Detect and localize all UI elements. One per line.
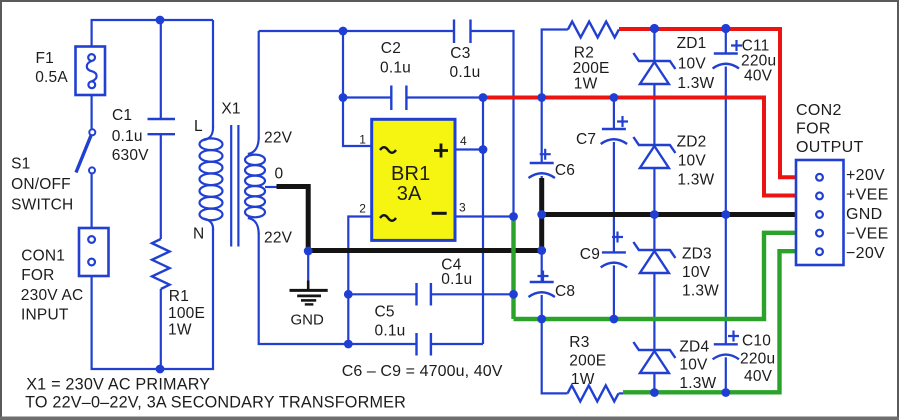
wire: green -raw rail to -VEE [514,233,797,319]
wire: top-left mains rail [92,20,213,47]
svg-text:X1: X1 [221,101,240,118]
svg-text:0.1u: 0.1u [112,128,143,145]
svg-text:630V: 630V [112,147,149,164]
wire: C4 right to -raw green column [431,293,514,295]
wire: pin 4 stub [455,148,483,150]
svg-text:1W: 1W [574,76,598,93]
svg-text:ZD3: ZD3 [682,246,712,263]
svg-text:1W: 1W [168,322,192,339]
svg-text:200E: 200E [573,60,610,77]
svg-text:C9: C9 [580,246,600,263]
svg-text:C6: C6 [555,162,575,179]
capacitor C6 [529,98,555,179]
svg-text:F1: F1 [36,50,55,67]
svg-text:ZD4: ZD4 [679,338,709,355]
svg-text:C3: C3 [450,45,470,62]
svg-text:R2: R2 [574,45,594,62]
wire: R1 to bottom rail [160,289,162,369]
wire: C1/R1 snubber column [160,20,162,119]
wire: C5 right to +raw column [431,343,483,345]
svg-text:0.1u: 0.1u [375,323,406,340]
connector CON2 [796,160,844,265]
zener diode ZD2 [633,137,675,215]
wire: AC1 drop to pin 1 [343,31,372,146]
svg-text:22V: 22V [264,230,293,247]
wire: green -20V bottom rail [623,251,796,392]
connector CON1 [79,228,109,276]
svg-text:0.1u: 0.1u [441,271,472,288]
svg-text:0.1u: 0.1u [450,64,481,81]
wire: C1 to R1 [160,134,162,239]
label BR1 pins [359,133,467,216]
svg-text:1.3W: 1.3W [682,282,719,299]
svg-text:FOR: FOR [796,121,831,138]
svg-text:C10: C10 [742,333,771,350]
svg-text:N: N [193,226,204,243]
svg-text:L: L [194,118,203,135]
svg-text:10V: 10V [679,357,708,374]
svg-text:10V: 10V [678,56,707,73]
wire: primary top drop [212,20,214,128]
svg-text:C8: C8 [555,283,575,300]
wire: C6 bottom stub [541,176,543,180]
svg-text:OUTPUT: OUTPUT [796,139,864,156]
wire: C2 right to +raw node [406,96,483,98]
svg-text:22V: 22V [264,130,293,147]
wire: red +raw rail [483,98,796,196]
capacitor C10 [713,215,739,393]
wire: secondary top 22V riser [258,31,260,139]
svg-text:10V: 10V [682,264,711,281]
fuse F1 [76,47,106,96]
svg-text:ZD1: ZD1 [677,35,707,52]
wire: green -raw column [511,217,515,320]
wire: GND rail to CON2 [539,178,544,251]
svg-text:100E: 100E [168,305,205,322]
capacitor C5 [417,333,431,356]
capacitor C3 [454,20,471,44]
wire: GND right rail [542,212,796,217]
svg-text:4: 4 [460,134,467,148]
svg-text:0.5A: 0.5A [35,69,68,86]
wire: F1 to S1 [90,95,92,130]
svg-text:220u: 220u [740,351,775,368]
wire: AC1 rail to C3 [259,30,454,32]
svg-text:INPUT: INPUT [21,307,69,324]
svg-text:FOR: FOR [21,267,54,284]
capacitor C2 [391,86,406,111]
ground symbol [290,251,328,304]
wire: +raw column through pin 4 down to C5 [482,98,484,345]
svg-text:R1: R1 [169,288,189,305]
wire: C5 rail [348,343,416,345]
svg-text:S1: S1 [11,156,30,173]
svg-text:C1: C1 [112,107,132,124]
svg-text:3: 3 [459,201,466,215]
resistor R1 [152,239,170,289]
switch S1 [76,129,95,173]
svg-text:1.3W: 1.3W [677,172,714,189]
zener diode ZD4 [633,342,675,393]
svg-text:3A: 3A [397,183,422,205]
svg-text:1.3W: 1.3W [679,375,716,392]
capacitor C8 [529,251,555,320]
transformer X1 secondary coil [245,138,278,235]
svg-text:1W: 1W [571,371,595,388]
svg-text:GND: GND [846,206,882,223]
svg-text:TO 22V–0–22V, 3A SECONDARY TR: TO 22V–0–22V, 3A SECONDARY TRANSFORMER [25,393,406,411]
svg-text:2: 2 [359,202,366,216]
svg-text:C7: C7 [576,131,596,148]
wire: secondary bottom 22V drop [259,233,349,344]
svg-text:+VEE: +VEE [846,187,889,204]
wire: C4 rail [348,293,416,295]
wire: C3 right to pin3 column [471,31,514,217]
svg-text:0: 0 [275,166,284,183]
svg-text:0.1u: 0.1u [380,59,411,76]
svg-text:CON1: CON1 [21,248,65,265]
wire: bottom mains rail [92,229,213,370]
transformer X1 primary coil [200,126,223,230]
svg-text:X1 = 230V AC PRIMARY: X1 = 230V AC PRIMARY [26,376,210,394]
svg-text:GND: GND [291,311,325,328]
resistor R2 [542,22,619,98]
svg-text:10V: 10V [678,153,707,170]
svg-text:230V AC: 230V AC [21,287,84,304]
capacitor C11 [713,29,742,215]
svg-text:C2: C2 [381,40,401,57]
capacitor C1 [148,119,176,134]
svg-text:SWITCH: SWITCH [11,197,73,214]
svg-text:C6 – C9 = 4700u, 40V: C6 – C9 = 4700u, 40V [342,363,503,380]
bridge rectifier BR1 [372,119,455,240]
svg-text:ZD2: ZD2 [677,134,707,151]
svg-text:CON2: CON2 [796,102,842,119]
svg-text:40V: 40V [744,368,773,385]
resistor R3 [542,319,623,401]
svg-text:BR1: BR1 [391,163,431,185]
zener diode ZD1 [633,29,675,146]
svg-text:+20V: +20V [846,167,885,184]
wire: pin 3 stub [455,215,514,217]
capacitor C7 [601,98,628,253]
zener diode ZD3 [633,215,675,351]
transformer X1 core [231,125,238,247]
capacitor C4 [417,283,431,306]
wire: red regulated +20V rail [619,29,796,177]
svg-text:R3: R3 [569,334,589,351]
wire: pin 2 drop to AC2 node [348,217,371,345]
svg-text:1: 1 [359,133,366,147]
svg-text:40V: 40V [744,68,773,85]
svg-text:200E: 200E [569,353,606,370]
svg-text:C5: C5 [375,304,395,321]
svg-text:−20V: −20V [846,245,885,262]
wire: C2 rail [343,96,391,98]
svg-text:−VEE: −VEE [846,226,889,243]
svg-text:1.3W: 1.3W [677,75,714,92]
wire: S1 to CON1 [90,174,92,229]
wire: black center tap (GND) [277,187,542,251]
capacitor C9 [601,232,627,320]
svg-text:ON/OFF: ON/OFF [11,176,71,193]
